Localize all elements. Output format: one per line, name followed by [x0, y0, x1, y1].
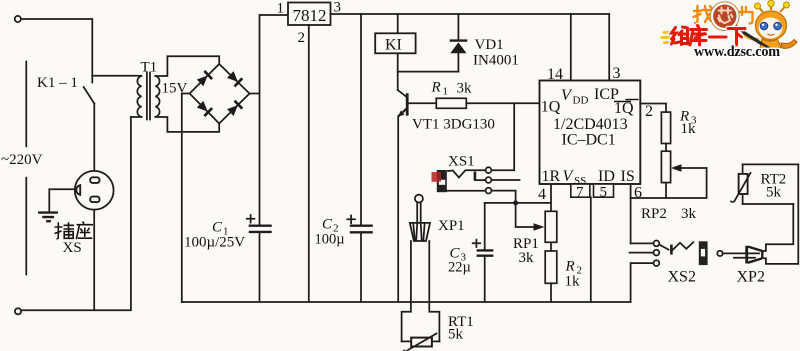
svg-text:VD1: VD1	[475, 37, 504, 53]
svg-text:XS1: XS1	[448, 154, 475, 170]
wire XS2 bottom contact to ground rail	[631, 263, 654, 302]
wire bridge positive up to 7812 input	[250, 15, 289, 94]
svg-text:6: 6	[634, 185, 642, 202]
wire mains span line left	[25, 62, 27, 275]
wire XS1 sleeve to body	[447, 190, 486, 192]
pin 2 label 7812	[298, 30, 306, 46]
diode D1 top-left	[196, 71, 212, 87]
pin 4 label	[538, 186, 546, 203]
wire XS2 top contact	[631, 242, 654, 244]
svg-text:7812: 7812	[293, 6, 327, 25]
wire XP1 body right conductor	[429, 241, 439, 341]
svg-text:R: R	[565, 259, 575, 275]
label RP1 value 3k	[519, 250, 535, 266]
label XP1	[438, 218, 465, 234]
svg-text:5k: 5k	[448, 327, 464, 343]
label T1	[141, 60, 158, 76]
wire IC pin4 down to RP1	[550, 184, 552, 211]
svg-text:KI: KI	[385, 37, 402, 54]
connector XS1 spring contact	[448, 170, 486, 177]
watermark yellow dashes	[662, 33, 676, 43]
svg-text:5: 5	[600, 185, 608, 201]
label C3 value	[448, 246, 471, 276]
watermark url text	[694, 44, 780, 60]
svg-text:1: 1	[277, 1, 285, 17]
svg-text:1Q: 1Q	[541, 99, 561, 116]
wire mains top from terminal to switch	[21, 19, 92, 76]
node XS1 contact circles	[486, 167, 492, 193]
label RT1 value 5k	[448, 327, 464, 343]
svg-text:3k: 3k	[457, 81, 473, 97]
wire R3 to RP2	[665, 144, 667, 152]
svg-text:1k: 1k	[565, 274, 581, 290]
ground	[38, 213, 58, 222]
svg-text:ID: ID	[598, 168, 615, 185]
label R3 value 1k	[681, 121, 697, 137]
svg-text:3k: 3k	[519, 250, 535, 266]
svg-text:XP2: XP2	[737, 269, 765, 286]
pin 3 label 7812	[334, 0, 342, 16]
mascot	[759, 4, 786, 12]
svg-text:DD: DD	[573, 95, 589, 107]
label XS	[63, 240, 82, 256]
svg-text:3k: 3k	[681, 206, 697, 222]
wire mains bottom to transformer primary bottom	[21, 117, 131, 310]
svg-text:VT1 3DG130: VT1 3DG130	[412, 117, 495, 133]
svg-text:1k: 1k	[681, 121, 697, 137]
label R3	[679, 109, 697, 127]
wire RT2 loop bottom	[743, 203, 794, 205]
pin 2 label IC	[645, 103, 653, 120]
label IN4001	[473, 53, 519, 69]
label XS1	[448, 154, 475, 170]
junction node A dot	[513, 200, 518, 205]
resistor R3	[661, 112, 670, 143]
label RT1	[448, 314, 474, 330]
svg-text:XS: XS	[63, 240, 82, 256]
bridge rectifier diamond	[190, 64, 250, 124]
svg-text:XP1: XP1	[438, 218, 465, 234]
svg-text:22µ: 22µ	[448, 260, 471, 276]
wire socket to ground	[49, 189, 74, 212]
watermark red text weiku yixia	[672, 26, 746, 46]
op-amp U1 IC 1/2CD4013	[540, 81, 641, 188]
wire KI-VD1 link	[398, 71, 459, 73]
wire socket bottom	[93, 210, 95, 310]
svg-text:R: R	[431, 80, 441, 96]
svg-text:100µ: 100µ	[315, 232, 345, 248]
wire RT1 bottom links	[402, 340, 440, 342]
wire R1 to IC pin1 1Q	[466, 102, 539, 104]
resistor R2	[545, 242, 557, 302]
connector XP1 plug	[410, 195, 430, 241]
label C1 value	[184, 220, 245, 251]
wire XS2 middle stub	[630, 252, 654, 254]
label VT1 3DG130	[412, 117, 495, 133]
label RT2	[761, 172, 787, 188]
resistor R1	[436, 98, 466, 108]
wire XP1 body left conductor	[402, 241, 411, 341]
wire VT1 emitter to ground rail	[397, 116, 399, 302]
capacitor C3	[473, 203, 494, 302]
svg-text:C: C	[322, 217, 333, 233]
regulator U2 7812	[288, 3, 331, 26]
svg-text:7: 7	[576, 185, 584, 201]
wire XS1 bottom contact to node A	[492, 191, 516, 203]
transformer T1	[137, 73, 159, 120]
svg-text:XS2: XS2	[668, 269, 696, 286]
label R1	[431, 80, 449, 98]
thermistor RT1	[404, 334, 437, 351]
svg-text:C: C	[212, 220, 223, 236]
wire VSS to ground rail	[590, 197, 592, 302]
wire rail to IC pin14	[570, 14, 572, 81]
wire primary bottom link	[131, 116, 142, 118]
connector XS1 post	[475, 172, 486, 181]
label socket chinese	[55, 222, 94, 240]
pin 14 label	[547, 66, 563, 83]
label K1-1	[37, 75, 78, 91]
svg-text:4: 4	[538, 186, 546, 203]
wire 1Q line down to XS1 top contact	[492, 103, 515, 170]
diode VD1	[450, 14, 468, 72]
label RP2 3k	[641, 206, 697, 222]
wire rail to relay KI	[397, 14, 399, 33]
diode D2 top-right	[226, 71, 242, 87]
pin 6 label	[634, 185, 642, 202]
wire bridge negative to ground rail	[182, 94, 190, 303]
wire bridge positive down to C1	[259, 94, 261, 225]
wire XP2 tip to RT2 inner	[764, 204, 794, 251]
label R2	[565, 259, 583, 277]
svg-text:IS: IS	[621, 168, 635, 185]
diode D3 bottom-left	[196, 100, 212, 116]
svg-text:1/2CD4013: 1/2CD4013	[553, 116, 628, 133]
svg-text:RP2: RP2	[641, 206, 667, 222]
wire node A horizontal C3 to pin4	[485, 202, 551, 204]
potentiometer RP1	[516, 203, 557, 242]
svg-text:5k: 5k	[766, 185, 782, 201]
potentiometer RP2	[631, 151, 707, 198]
wire switch junction to transformer primary top	[92, 75, 140, 77]
svg-text:1R: 1R	[542, 168, 561, 185]
label XS2	[668, 269, 696, 286]
capacitor C2	[347, 14, 373, 302]
label RT2 value 5k	[766, 185, 782, 201]
wire VT1 base to R1	[409, 102, 437, 104]
svg-text:100µ/25V: 100µ/25V	[184, 235, 245, 251]
socket XS	[75, 171, 114, 210]
pin 7 box	[571, 184, 590, 201]
wire 7812 output +12V rail	[331, 13, 610, 15]
svg-text:IN4001: IN4001	[473, 53, 519, 69]
label R2 value 1k	[565, 274, 581, 290]
wire RT2 loop top	[743, 163, 799, 165]
label 15V	[162, 81, 188, 97]
connector XP2 plug	[717, 246, 762, 264]
svg-text:1Q: 1Q	[614, 100, 634, 117]
node L2 mains input terminal bottom	[15, 308, 21, 314]
capacitor C1	[247, 215, 272, 302]
wire secondary top to bridge	[155, 56, 219, 76]
wire 7812 ground pin2 down to rail	[308, 25, 310, 302]
svg-text:3: 3	[613, 65, 621, 82]
svg-text:IC–DC1: IC–DC1	[562, 132, 616, 149]
svg-text:www.dzsc.com: www.dzsc.com	[694, 44, 780, 60]
label R1 value 3k	[457, 81, 473, 97]
pin 1 label 7812	[277, 1, 285, 17]
connector XS2 plug body	[699, 241, 708, 265]
wire XS1 middle stub	[492, 179, 520, 181]
pin 3 label IC	[613, 65, 621, 82]
wire rail to IC pin3	[608, 14, 610, 81]
svg-text:2: 2	[645, 103, 653, 120]
svg-text:K1 – 1: K1 – 1	[37, 75, 78, 91]
svg-text:T1: T1	[141, 60, 158, 76]
relay KI	[375, 33, 415, 53]
wire XP2 sleeve to RT2 outer	[764, 164, 799, 264]
diode D4 bottom-right	[226, 101, 242, 117]
svg-text:~220V: ~220V	[1, 152, 43, 168]
svg-text:1: 1	[443, 86, 449, 98]
label VD1	[475, 37, 504, 53]
wire KI bottom to VT1 collector	[397, 53, 399, 90]
connector XS1 jack body	[432, 170, 447, 192]
wire IC pin6 down	[630, 184, 632, 243]
svg-text:2: 2	[298, 30, 306, 46]
label ~220V	[1, 152, 43, 168]
wire secondary bottom to bridge	[155, 117, 219, 132]
node L1 mains input terminal top	[15, 16, 21, 22]
wire ground rail	[182, 301, 631, 303]
transistor VT1	[398, 90, 408, 117]
pin 5 box	[594, 184, 614, 201]
switch K1-1	[84, 76, 95, 104]
wire IC pin2 output to R3	[640, 104, 666, 113]
label C2 value	[315, 217, 345, 248]
wire switch to socket top	[93, 104, 95, 172]
connector XS2 spring contact	[659, 242, 693, 254]
thermistor RT2	[731, 164, 751, 204]
label RP1	[513, 236, 539, 252]
label XP2	[737, 269, 765, 286]
node XS2 contact circles	[654, 241, 660, 267]
watermark logo dzsc	[694, 0, 798, 56]
